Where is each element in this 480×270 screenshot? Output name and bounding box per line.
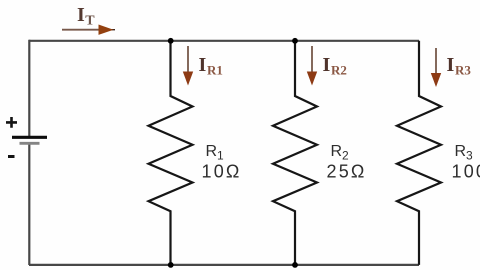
svg-text:R: R [455,143,467,160]
svg-text:R1: R1 [207,63,223,78]
svg-text:R2: R2 [331,63,347,78]
resistor R3 (zigzag with leads) [397,41,441,265]
svg-text:3: 3 [466,149,473,163]
arrow IT (total current, points right) [62,25,115,35]
label R2 value [327,143,367,182]
svg-text:1: 1 [217,149,224,163]
svg-text:R3: R3 [455,63,471,78]
node top-left junction [168,38,174,44]
battery minus sign [8,155,15,158]
arrow IR2 (points down) [307,46,317,86]
svg-text:I: I [447,54,455,76]
svg-text:25Ω: 25Ω [327,162,367,182]
node bottom-left junction [168,262,174,268]
label R1 value [202,143,242,182]
svg-text:R: R [206,143,218,160]
label IR1 [199,54,223,78]
label IT [77,4,95,29]
node top-middle junction [292,38,298,44]
svg-text:T: T [85,14,95,29]
wire left upper (battery to top) [28,40,30,136]
resistor R1 (zigzag with leads) [149,41,193,265]
svg-text:I: I [199,54,207,76]
label IR3 [447,54,472,78]
arrow IR3 (points down) [431,48,441,87]
svg-text:I: I [323,54,331,76]
arrow IR1 (points down) [183,46,193,86]
svg-text:10Ω: 10Ω [202,162,242,182]
node bottom-middle junction [292,262,298,268]
resistor R2 (zigzag with leads) [273,41,317,265]
wire bottom horizontal [29,264,419,266]
battery BT1 negative plate [20,142,40,145]
wire top horizontal [29,40,419,42]
battery plus sign [6,117,17,128]
label R3 value [452,143,480,182]
svg-text:100Ω: 100Ω [452,162,480,182]
battery BT1 positive plate [12,136,47,139]
label IR2 [323,54,347,78]
svg-text:2: 2 [342,149,349,163]
svg-text:R: R [331,143,343,160]
svg-text:I: I [77,4,85,26]
wire left lower (battery to bottom) [28,144,30,266]
